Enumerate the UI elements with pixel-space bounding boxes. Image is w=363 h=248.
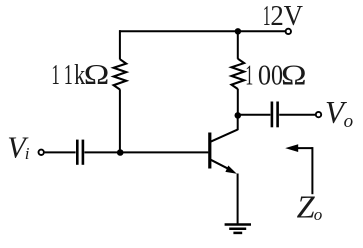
terminal 12V supply: [286, 29, 291, 34]
ground: [225, 225, 251, 233]
node B junction dot: [117, 149, 124, 156]
label Vi: [7, 130, 30, 164]
wire top lead of R2: [237, 30, 239, 59]
wire collector up to node C: [237, 116, 239, 131]
label Zo: [297, 190, 323, 225]
resistor R2: [232, 59, 245, 89]
terminal Vo output: [316, 112, 321, 117]
svg-text:1: 1: [245, 60, 253, 92]
svg-text:o: o: [344, 111, 354, 132]
capacitor C1: [77, 140, 83, 165]
svg-text:1: 1: [51, 59, 59, 91]
wire C1 to base: [84, 151, 208, 153]
svg-text:Ω: Ω: [281, 60, 307, 92]
svg-text:V: V: [284, 0, 303, 32]
Zo impedance arrow: [285, 144, 312, 194]
wire top rail: [119, 30, 285, 32]
wire bottom lead of R2: [237, 89, 239, 116]
wire input to C1: [45, 151, 76, 153]
capacitor C2: [272, 102, 278, 128]
resistor R1: [114, 59, 127, 89]
svg-text:o: o: [314, 205, 323, 224]
wire top lead of R1: [119, 30, 121, 59]
terminal Vi input: [39, 150, 44, 155]
svg-text:i: i: [25, 144, 30, 163]
label 12 V: [263, 0, 303, 32]
node C junction dot: [235, 112, 242, 119]
svg-text:1: 1: [64, 59, 73, 91]
value label 11kΩ: [51, 59, 109, 91]
wire node C to C2: [238, 114, 271, 116]
value label 100Ω: [245, 60, 306, 92]
wire emitter down to ground: [237, 174, 239, 225]
svg-text:Z: Z: [297, 190, 315, 225]
transistor Q1: [210, 130, 238, 174]
wire bottom lead of R1: [119, 89, 121, 152]
wire C2 to output terminal: [279, 114, 315, 116]
svg-text:Ω: Ω: [84, 59, 110, 91]
label Vo: [325, 95, 353, 132]
svg-text:0: 0: [258, 60, 271, 92]
svg-text:2: 2: [270, 0, 283, 32]
node VCC junction dot: [235, 28, 241, 34]
svg-text:1: 1: [263, 0, 271, 32]
